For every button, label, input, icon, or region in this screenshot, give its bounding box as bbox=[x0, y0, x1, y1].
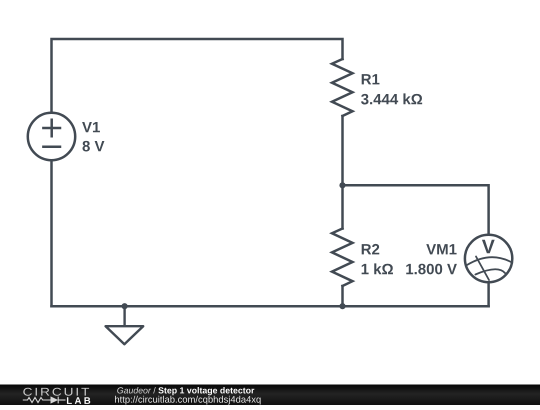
junction bottom-rail dot at R2 bbox=[339, 303, 345, 309]
wire: node A to voltmeter top bbox=[343, 185, 489, 235]
voltage source V1 circle bbox=[28, 113, 75, 160]
footer title Step 1 voltage detector bbox=[158, 387, 254, 395]
junction node A dot bbox=[339, 182, 345, 188]
voltmeter VM1 circle bbox=[465, 235, 512, 282]
VM1 meter lower arc bbox=[475, 269, 505, 274]
value 3.444 kOhm bbox=[361, 93, 422, 104]
value 1.800 V bbox=[406, 264, 457, 275]
logo diode triangle bbox=[51, 396, 59, 403]
wire: bottom ground rail bbox=[52, 305, 489, 308]
wire: voltmeter bottom lead bbox=[487, 282, 490, 306]
value 8 V bbox=[82, 141, 104, 152]
V1 plus sign bbox=[43, 120, 60, 137]
resistor R2 bbox=[332, 229, 353, 287]
wire: R2 bottom lead bbox=[341, 286, 344, 306]
wire: R2 top lead bbox=[341, 185, 344, 229]
label R1 bbox=[362, 74, 380, 84]
wire: V1 bottom to ground rail bbox=[50, 160, 53, 306]
V1 minus sign bbox=[43, 145, 60, 148]
VM1 meter upper arc bbox=[467, 257, 511, 265]
footer separator bbox=[153, 387, 155, 393]
resistor R1 bbox=[332, 59, 353, 116]
footer url bbox=[115, 396, 261, 405]
VM1 meter needle bbox=[476, 257, 489, 281]
junction ground dot bbox=[122, 303, 128, 309]
label R2 bbox=[362, 244, 380, 254]
wire: V1 top to top rail to R1 top bbox=[52, 39, 343, 113]
label VM1 bbox=[426, 244, 456, 254]
logo CIRCUIT bbox=[23, 388, 89, 396]
value 1 kOhm bbox=[362, 263, 393, 274]
voltmeter V glyph bbox=[482, 240, 495, 253]
logo resistor-diode motif bbox=[23, 397, 66, 404]
logo LAB bbox=[67, 397, 90, 404]
footer author Gaudeor bbox=[117, 387, 151, 393]
wire: R1 bottom to node A bbox=[341, 116, 344, 185]
ground symbol bbox=[106, 306, 144, 344]
label V1 bbox=[82, 122, 100, 132]
